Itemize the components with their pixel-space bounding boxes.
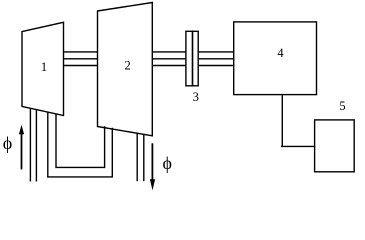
shaft wire segment A bottom bbox=[64, 65, 98, 67]
outlet pipe wire 2 under turbine 2 bbox=[143, 134, 145, 181]
shaft wire segment C top bbox=[198, 51, 234, 53]
turbine 2 bbox=[98, 3, 153, 136]
shaft wire segment A top bbox=[64, 51, 98, 53]
svg-text:4: 4 bbox=[277, 46, 284, 60]
outlet pipe wire 1 under turbine 2 bbox=[136, 133, 138, 181]
unit 5 box bbox=[315, 120, 355, 172]
shaft wire segment C middle bbox=[198, 58, 234, 60]
duct inner wire bbox=[56, 114, 105, 167]
coupling 3 right plate bbox=[193, 31, 199, 86]
inlet pipe wire 1 under turbine 1 bbox=[29, 108, 31, 181]
turbine 1 bbox=[22, 22, 64, 115]
inlet pipe wire 2 under turbine 1 bbox=[35, 110, 37, 182]
shaft wire segment B top bbox=[152, 51, 186, 53]
svg-text:2: 2 bbox=[124, 59, 130, 73]
svg-text:5: 5 bbox=[339, 99, 345, 113]
unit 4 box bbox=[234, 22, 317, 95]
shaft wire segment A middle bbox=[64, 58, 98, 60]
coupling 3 left plate bbox=[186, 31, 193, 86]
duct outer wire bbox=[48, 112, 113, 177]
svg-text:3: 3 bbox=[193, 90, 199, 104]
flow arrow down bbox=[150, 143, 155, 190]
svg-text:1: 1 bbox=[41, 60, 47, 74]
svg-text:ϕ: ϕ bbox=[3, 133, 12, 153]
wire from unit 4 down bbox=[281, 95, 315, 147]
svg-text:ϕ: ϕ bbox=[163, 153, 172, 173]
shaft wire segment C bottom bbox=[198, 65, 234, 67]
shaft wire segment B bottom bbox=[152, 65, 186, 67]
shaft wire segment B middle bbox=[152, 58, 186, 60]
flow arrow up bbox=[19, 125, 24, 170]
